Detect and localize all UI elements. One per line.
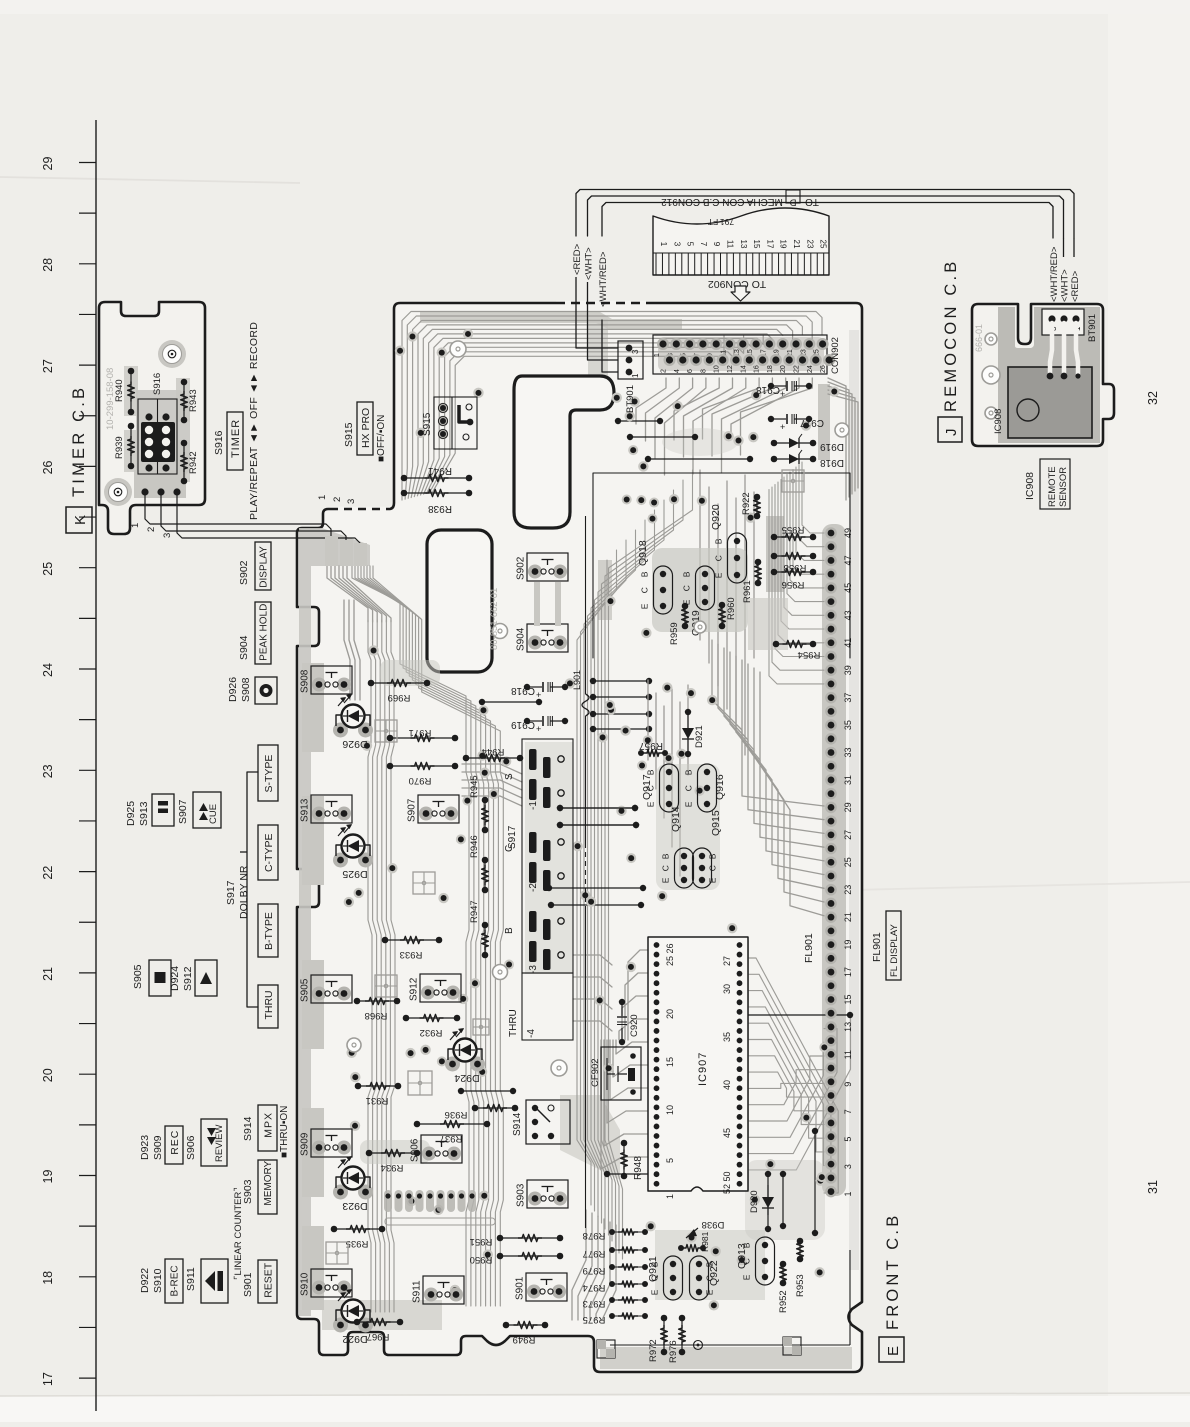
svg-text:PEAK HOLD: PEAK HOLD [259, 604, 270, 661]
svg-text:R951: R951 [470, 1236, 493, 1247]
switch S912 [421, 986, 435, 1000]
svg-text:1: 1 [659, 242, 668, 247]
svg-text:33: 33 [843, 748, 853, 758]
svg-text:S905: S905 [300, 978, 311, 1002]
svg-text:C-TYPE: C-TYPE [263, 834, 275, 873]
svg-text:+: + [536, 690, 541, 700]
svg-text:19: 19 [843, 940, 853, 950]
svg-text:R974: R974 [583, 1282, 606, 1293]
svg-text:Q913: Q913 [736, 1243, 748, 1269]
switch S905 [312, 987, 326, 1001]
svg-text:B-REC: B-REC [170, 1265, 181, 1296]
svg-text:5: 5 [843, 1137, 853, 1142]
svg-text:<WHT/RED>: <WHT/RED> [598, 251, 609, 307]
svg-text:R946: R946 [469, 835, 480, 858]
svg-text:S909: S909 [300, 1132, 311, 1156]
svg-text:R934: R934 [381, 1162, 404, 1173]
svg-text:SENSOR: SENSOR [1058, 467, 1069, 507]
svg-text:R933: R933 [400, 949, 423, 960]
svg-text:19: 19 [779, 240, 788, 249]
svg-text:S915: S915 [422, 412, 433, 436]
svg-text:2: 2 [332, 497, 343, 502]
switch S915 [434, 397, 477, 449]
svg-text:S: S [504, 773, 515, 780]
svg-text:R967: R967 [367, 1331, 390, 1342]
IC U907 (IC907) [648, 937, 748, 1191]
svg-text:R953: R953 [795, 1274, 806, 1297]
svg-text:Q916: Q916 [714, 774, 726, 800]
svg-text:B-TYPE: B-TYPE [263, 912, 275, 950]
svg-text:E: E [646, 801, 656, 807]
svg-text:R952: R952 [778, 1290, 789, 1313]
svg-text:3: 3 [162, 533, 173, 538]
svg-text:31: 31 [843, 775, 853, 785]
svg-text:R947: R947 [469, 900, 480, 923]
svg-text:R942: R942 [188, 451, 199, 474]
svg-text:R950: R950 [470, 1254, 493, 1265]
svg-text:R969: R969 [388, 692, 411, 703]
svg-text:<WHT>: <WHT> [1060, 269, 1071, 302]
svg-text:REMOCON C.B: REMOCON C.B [942, 259, 960, 412]
svg-text:■THRU▪ON: ■THRU▪ON [279, 1106, 290, 1158]
svg-text:13: 13 [843, 1022, 853, 1032]
svg-text:MPX: MPX [262, 1112, 274, 1138]
svg-text:16: 16 [754, 365, 761, 373]
connector CON902 [653, 335, 827, 374]
svg-text:CUE: CUE [208, 804, 219, 824]
svg-text:17: 17 [843, 967, 853, 977]
svg-text:C918: C918 [511, 685, 535, 696]
svg-text:C: C [708, 865, 718, 871]
svg-text:3: 3 [631, 349, 640, 354]
svg-text:23: 23 [805, 240, 814, 249]
capacitor C918 [768, 383, 774, 389]
svg-text:R937: R937 [440, 1133, 463, 1144]
svg-text:35: 35 [843, 720, 853, 730]
svg-text:K: K [72, 515, 89, 525]
svg-text:R949: R949 [513, 1334, 536, 1345]
copper traces [402, 312, 822, 501]
svg-text:S911: S911 [412, 1280, 423, 1303]
svg-text:R977: R977 [583, 1248, 606, 1259]
transistor Q913 [756, 1237, 775, 1285]
LED D923 [333, 1185, 348, 1200]
switch S901 [527, 1285, 541, 1299]
svg-text:R954: R954 [798, 649, 821, 660]
svg-text:10: 10 [665, 1105, 675, 1115]
svg-text:25: 25 [819, 240, 828, 249]
svg-text:DOLBY NR: DOLBY NR [238, 865, 250, 919]
svg-text:B: B [708, 853, 718, 859]
svg-text:21: 21 [792, 240, 801, 249]
svg-text:E: E [684, 801, 694, 807]
svg-text:7: 7 [699, 242, 708, 247]
capacitor C920 [619, 999, 625, 1005]
transistor Q917 [660, 764, 679, 812]
svg-text:S912: S912 [182, 966, 194, 991]
svg-text:17: 17 [41, 1372, 55, 1386]
svg-text:D925: D925 [342, 868, 367, 880]
svg-text:19: 19 [41, 1170, 55, 1184]
svg-text:15: 15 [843, 994, 853, 1004]
svg-text:D919: D919 [820, 441, 844, 452]
svg-text:B: B [661, 853, 671, 859]
svg-text:40: 40 [722, 1080, 732, 1090]
transistor Q916 [698, 764, 717, 812]
svg-text:-3: -3 [528, 965, 539, 974]
svg-text:S913: S913 [138, 801, 150, 826]
wire jumper [557, 822, 563, 828]
switch S908 [312, 678, 326, 692]
svg-text:1: 1 [665, 1194, 675, 1199]
switch S913 [312, 807, 326, 821]
svg-text:17: 17 [765, 240, 774, 249]
diode D920 [767, 1185, 769, 1215]
svg-text:3: 3 [843, 1164, 853, 1169]
svg-text:20: 20 [41, 1068, 55, 1082]
svg-text:D924: D924 [169, 966, 181, 991]
svg-text:15: 15 [752, 240, 761, 249]
wire jumper [645, 456, 651, 462]
svg-text:Q914: Q914 [670, 806, 682, 832]
svg-text:S-TYPE: S-TYPE [263, 755, 275, 793]
wire jumper [546, 885, 552, 891]
svg-text:27: 27 [41, 359, 55, 373]
svg-text:6: 6 [687, 369, 694, 373]
switch S904 [528, 636, 542, 650]
svg-text:R922: R922 [741, 492, 752, 515]
svg-text:+: + [536, 724, 541, 734]
svg-text:29: 29 [41, 157, 55, 171]
svg-text:IC908: IC908 [1024, 472, 1036, 500]
svg-text:S904: S904 [238, 635, 250, 660]
LED D926 [333, 723, 348, 738]
battery connector BT901 [618, 341, 643, 379]
svg-text:C: C [682, 585, 692, 591]
svg-text:R944: R944 [482, 746, 505, 757]
svg-text:S902: S902 [516, 556, 527, 580]
svg-text:E: E [708, 877, 718, 883]
svg-text:R936: R936 [445, 1109, 468, 1120]
svg-text:C919: C919 [511, 719, 535, 730]
transistor Q920 [728, 533, 747, 583]
svg-text:D926: D926 [227, 677, 239, 702]
svg-text:5: 5 [665, 1158, 675, 1163]
svg-text:13: 13 [739, 240, 748, 249]
svg-text:R981: R981 [700, 1231, 710, 1252]
svg-text:MEMORY: MEMORY [263, 1160, 274, 1205]
svg-text:S917: S917 [225, 880, 237, 905]
switch S917 DOLBY NR selector [522, 739, 573, 973]
svg-text:3: 3 [672, 242, 681, 247]
switch S914 [526, 1100, 570, 1144]
svg-text:REC: REC [169, 1130, 181, 1155]
svg-text:22: 22 [41, 866, 55, 880]
svg-text:R935: R935 [346, 1238, 369, 1249]
wire jumper [780, 1171, 786, 1177]
svg-text:B: B [684, 769, 694, 775]
wire jumper [709, 1012, 715, 1018]
svg-text:2: 2 [146, 527, 157, 532]
svg-text:D920: D920 [749, 1190, 760, 1213]
svg-text:C917: C917 [800, 417, 824, 428]
svg-text:REMOTE: REMOTE [1047, 466, 1058, 507]
switch S906 [422, 1147, 436, 1161]
svg-text:3: 3 [346, 499, 357, 504]
svg-text:+: + [780, 422, 785, 432]
svg-text:21: 21 [41, 967, 55, 981]
svg-text:24: 24 [41, 663, 55, 677]
svg-text:S913: S913 [300, 798, 311, 822]
svg-text:21: 21 [843, 912, 853, 922]
svg-text:S912: S912 [409, 977, 420, 1001]
svg-text:IC908: IC908 [993, 409, 1004, 434]
switch S909 [312, 1141, 326, 1155]
svg-text:BT901: BT901 [1087, 314, 1098, 342]
svg-text:Q920: Q920 [710, 504, 722, 530]
svg-text:23: 23 [843, 885, 853, 895]
svg-text:S907: S907 [177, 799, 189, 824]
svg-text:43: 43 [843, 610, 853, 620]
svg-text:R970: R970 [409, 775, 432, 786]
LED D925 [333, 853, 348, 868]
svg-text:R939: R939 [114, 436, 125, 459]
svg-text:25: 25 [843, 857, 853, 867]
svg-text:D922: D922 [139, 1268, 151, 1293]
svg-text:E: E [661, 877, 671, 883]
switch S903 [528, 1192, 542, 1206]
svg-text:S914: S914 [242, 1116, 254, 1141]
svg-text:41: 41 [843, 638, 853, 648]
svg-text:S906: S906 [185, 1135, 197, 1160]
svg-text:49: 49 [843, 528, 853, 538]
svg-text:FL901: FL901 [871, 932, 883, 962]
svg-text:47: 47 [843, 555, 853, 565]
svg-text:D923: D923 [342, 1200, 367, 1212]
capacitor C919 [524, 718, 530, 724]
svg-text:FL901: FL901 [803, 933, 815, 963]
wire jumper [812, 1128, 818, 1134]
svg-text:R938: R938 [428, 503, 452, 514]
svg-text:R979: R979 [583, 1265, 606, 1276]
svg-text:B: B [714, 538, 724, 544]
svg-text:R941: R941 [428, 465, 452, 476]
svg-text:THRU: THRU [263, 990, 275, 1019]
svg-text:R961: R961 [742, 580, 753, 603]
svg-text:2: 2 [661, 369, 668, 373]
svg-text:BT901: BT901 [625, 385, 636, 413]
svg-text:MECHA CON C.B CON912: MECHA CON C.B CON912 [661, 196, 783, 207]
svg-text:E: E [650, 1289, 660, 1295]
svg-text:E: E [705, 1289, 715, 1295]
svg-text:CF902: CF902 [590, 1058, 601, 1087]
svg-text:10-299-158-08: 10-299-158-08 [105, 368, 116, 430]
LED D922 [333, 1318, 348, 1333]
svg-text:80-851-662-01: 80-851-662-01 [489, 588, 500, 650]
svg-text:52 50: 52 50 [722, 1171, 732, 1194]
svg-text:R959: R959 [669, 622, 680, 645]
svg-text:37: 37 [843, 693, 853, 703]
svg-text:5: 5 [686, 242, 695, 247]
LED D924 [445, 1057, 460, 1072]
svg-text:45: 45 [722, 1128, 732, 1138]
svg-text:26: 26 [820, 365, 827, 373]
svg-text:<RED>: <RED> [572, 243, 583, 275]
svg-text:B: B [640, 571, 650, 577]
svg-text:R976: R976 [668, 1340, 679, 1363]
svg-text:C: C [714, 555, 724, 561]
svg-text:S906: S906 [410, 1138, 421, 1162]
svg-text:S908: S908 [240, 677, 252, 702]
svg-text:S902: S902 [238, 560, 250, 585]
svg-text:⌜LINEAR COUNTER⌝: ⌜LINEAR COUNTER⌝ [233, 1187, 244, 1280]
svg-text:S910: S910 [152, 1268, 164, 1293]
svg-text:TO: TO [805, 196, 819, 207]
svg-text:R931: R931 [366, 1095, 389, 1106]
switch S907 [419, 807, 433, 821]
FL display connector FL901 [825, 527, 837, 539]
svg-text:1: 1 [654, 353, 661, 357]
svg-text:27: 27 [722, 956, 732, 966]
svg-text:THRU: THRU [508, 1009, 519, 1037]
svg-text:45: 45 [843, 583, 853, 593]
svg-text:R975: R975 [583, 1314, 606, 1325]
svg-text:20: 20 [780, 365, 787, 373]
svg-text:32: 32 [1146, 391, 1160, 405]
wire RED/WHT/WHT-RED harness [576, 190, 1074, 239]
svg-text:D925: D925 [125, 801, 137, 826]
svg-text:RESET: RESET [262, 1262, 274, 1298]
svg-text:R960: R960 [726, 597, 737, 620]
svg-text:1: 1 [317, 495, 328, 500]
svg-text:E: E [640, 603, 650, 609]
svg-text:S916: S916 [152, 373, 163, 395]
svg-text:Q918: Q918 [637, 540, 649, 566]
svg-text:S917: S917 [507, 825, 518, 849]
svg-text:REVIEW: REVIEW [214, 1124, 225, 1162]
svg-text:39: 39 [843, 665, 853, 675]
svg-text:CON902: CON902 [830, 337, 841, 374]
svg-text:35: 35 [722, 1032, 732, 1042]
svg-text:D938: D938 [702, 1219, 725, 1230]
diodes D918 D919 [771, 440, 778, 447]
REMOCON C.B board [972, 304, 1114, 446]
svg-text:R968: R968 [365, 1010, 388, 1021]
svg-text:18: 18 [41, 1271, 55, 1285]
transistor Q919 [696, 566, 715, 610]
svg-text:12: 12 [727, 365, 734, 373]
svg-text:R957: R957 [639, 740, 663, 751]
svg-text:27: 27 [843, 830, 853, 840]
wire jumper [557, 805, 563, 811]
transistor Q918 [654, 566, 673, 614]
svg-text:FT: FT [708, 217, 718, 227]
svg-text:8: 8 [700, 369, 707, 373]
svg-text:E: E [742, 1274, 752, 1280]
svg-text:FL DISPLAY: FL DISPLAY [889, 924, 900, 977]
svg-text:D918: D918 [820, 457, 844, 468]
svg-text:R955: R955 [782, 524, 805, 535]
svg-text:S909: S909 [152, 1135, 164, 1160]
svg-text:20: 20 [665, 1009, 675, 1019]
svg-text:-1: -1 [528, 801, 539, 810]
svg-text:10: 10 [714, 365, 721, 373]
svg-text:1: 1 [843, 1192, 853, 1197]
svg-text:R956: R956 [782, 579, 805, 590]
svg-text:B: B [682, 571, 692, 577]
svg-text:PLAY/REPEAT ◄► OFF ◄► RECORD: PLAY/REPEAT ◄► OFF ◄► RECORD [248, 322, 260, 520]
transistor Q915 [693, 848, 712, 888]
svg-text:D923: D923 [139, 1135, 151, 1160]
svg-text:TIMER C.B: TIMER C.B [70, 385, 88, 497]
svg-text:R978: R978 [583, 1230, 606, 1241]
svg-text:IC907: IC907 [697, 1052, 709, 1086]
svg-text:15: 15 [665, 1057, 675, 1067]
ruler scale [95, 120, 97, 1411]
connector CON912 ribbon cable to MECHA CON C.B [653, 208, 829, 275]
svg-text:14: 14 [740, 365, 747, 373]
FRONT C.B board outline [297, 303, 862, 1372]
svg-text:R932: R932 [420, 1027, 443, 1038]
IC908 remote sensor [1008, 367, 1092, 438]
svg-text:DISPLAY: DISPLAY [259, 546, 270, 588]
svg-text:23: 23 [41, 764, 55, 778]
svg-text:R971: R971 [409, 727, 432, 738]
svg-text:C: C [684, 785, 694, 791]
svg-text:C: C [661, 865, 671, 871]
TIMER C.B board [99, 302, 205, 534]
svg-text:Q921: Q921 [647, 1256, 659, 1282]
svg-text:E: E [885, 1346, 902, 1356]
capacitor C917 [768, 416, 774, 422]
section titles [66, 507, 92, 533]
svg-text:-4: -4 [526, 1029, 537, 1038]
svg-text:S903: S903 [516, 1183, 527, 1207]
diode D921 [685, 709, 691, 715]
svg-text:R943: R943 [188, 389, 199, 412]
svg-text:S904: S904 [516, 627, 527, 651]
wire jumper [548, 902, 554, 908]
svg-text:25: 25 [41, 562, 55, 576]
svg-text:31: 31 [1146, 1180, 1160, 1194]
svg-text:11: 11 [843, 1050, 853, 1059]
capacitor C918 [524, 684, 530, 690]
switch S910 [312, 1281, 326, 1295]
transistor Q921 [664, 1256, 683, 1300]
svg-text:B: B [646, 769, 656, 775]
switch S902 [528, 565, 542, 579]
svg-text:B: B [504, 927, 515, 934]
svg-text:R973: R973 [583, 1298, 606, 1309]
svg-text:C918: C918 [756, 384, 780, 395]
svg-text:D924: D924 [454, 1072, 479, 1084]
svg-text:S901: S901 [515, 1276, 526, 1300]
svg-text:<WHT/RED>: <WHT/RED> [1049, 246, 1060, 302]
svg-text:D922: D922 [342, 1333, 367, 1345]
svg-text:Q915: Q915 [710, 810, 722, 836]
svg-text:7: 7 [843, 1109, 853, 1114]
svg-text:D921: D921 [694, 725, 705, 748]
svg-text:26: 26 [41, 460, 55, 474]
svg-text:1: 1 [631, 373, 640, 378]
wire jumper [604, 1171, 610, 1177]
svg-text:666-01: 666-01 [974, 324, 984, 352]
wire jumper [765, 1171, 771, 1177]
svg-text:S908: S908 [300, 669, 311, 693]
svg-text:<RED>: <RED> [1070, 270, 1081, 302]
svg-text:29: 29 [843, 802, 853, 812]
svg-text:TIMER: TIMER [230, 419, 242, 458]
